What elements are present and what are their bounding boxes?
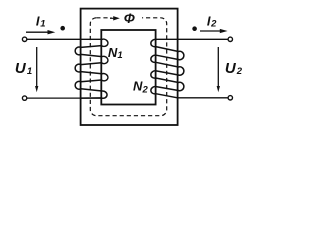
terminal top-left bbox=[22, 37, 26, 41]
svg-text:2: 2 bbox=[210, 19, 217, 30]
wire top-right bbox=[156, 38, 228, 40]
core inner window bbox=[101, 30, 155, 105]
polarity dot right bbox=[192, 26, 197, 31]
svg-text:U: U bbox=[225, 60, 237, 77]
current I2 arrow bbox=[200, 29, 228, 33]
svg-text:2: 2 bbox=[142, 84, 149, 95]
svg-text:1: 1 bbox=[27, 66, 32, 77]
flux arrow bbox=[110, 16, 120, 20]
voltage U1 arrow bbox=[35, 47, 38, 92]
terminal bottom-left bbox=[22, 96, 26, 100]
wire bottom-left bbox=[27, 97, 102, 99]
flux path (dashed) bbox=[90, 18, 166, 116]
svg-text:2: 2 bbox=[236, 66, 243, 77]
voltage U2 arrow bbox=[217, 47, 220, 92]
core outer outline bbox=[81, 9, 178, 125]
wire top-left bbox=[27, 38, 102, 40]
polarity dot left bbox=[60, 26, 65, 31]
terminal bottom-right bbox=[228, 96, 232, 100]
svg-text:N: N bbox=[133, 79, 143, 94]
svg-text:U: U bbox=[15, 60, 27, 77]
svg-text:1: 1 bbox=[117, 50, 122, 61]
svg-text:N: N bbox=[108, 45, 118, 60]
svg-text:1: 1 bbox=[40, 19, 45, 30]
wire bottom-right bbox=[178, 97, 228, 99]
svg-text:Φ: Φ bbox=[124, 11, 135, 26]
current I1 arrow bbox=[26, 30, 55, 34]
terminal top-right bbox=[228, 37, 232, 41]
primary winding N1 bbox=[75, 39, 108, 98]
secondary winding N2 bbox=[151, 39, 184, 97]
